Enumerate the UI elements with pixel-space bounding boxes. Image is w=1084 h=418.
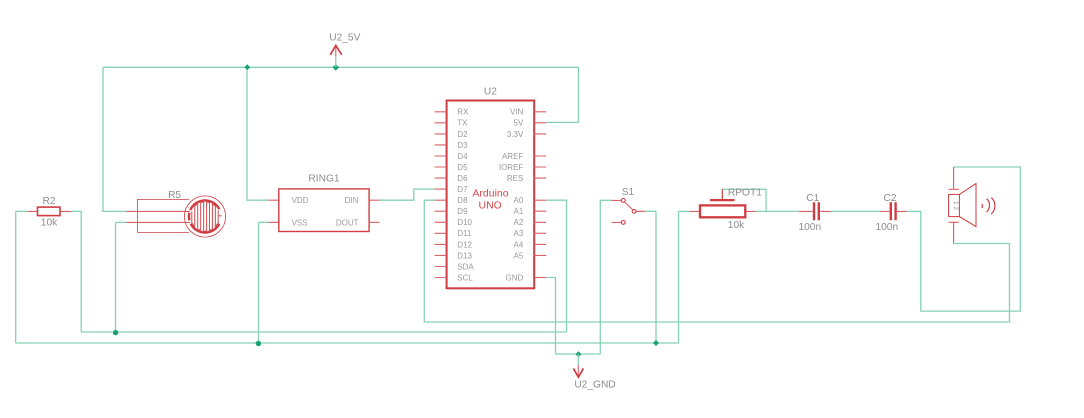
U2 left pin labels	[457, 108, 474, 283]
U2_5V stem wire	[335, 56, 337, 67]
node junction R5-divider	[113, 330, 118, 335]
svg-text:100n: 100n	[798, 222, 821, 233]
S1 pin stubs	[612, 200, 646, 222]
potentiometer RPOT1	[689, 188, 762, 232]
C2 plates	[891, 202, 896, 220]
wire C2 to speaker pin1	[907, 167, 1021, 311]
S1 lever	[625, 202, 633, 210]
svg-text:GND: GND	[506, 273, 524, 282]
wire R5 bottom lead down	[116, 222, 127, 332]
svg-text:D7: D7	[457, 185, 468, 194]
U2 body	[447, 101, 535, 289]
svg-text:D2: D2	[457, 130, 468, 139]
svg-text:U2_GND: U2_GND	[574, 380, 615, 391]
RPOT1 wiper	[710, 199, 735, 201]
svg-text:D3: D3	[457, 141, 468, 150]
wire divider rail y=332	[81, 331, 566, 333]
wire R2 right lead down	[71, 211, 81, 332]
ground symbol U2_GND	[573, 354, 615, 391]
C1 plates	[814, 202, 819, 220]
RPOT1 leads	[689, 210, 755, 212]
RING1 body	[279, 189, 369, 232]
wire C1 to C2	[831, 210, 881, 212]
svg-text:SCL: SCL	[457, 273, 473, 282]
speaker pins 1 and 2	[949, 167, 959, 244]
svg-text:R5: R5	[168, 190, 181, 201]
svg-text:RING1: RING1	[308, 174, 339, 185]
svg-text:AREF: AREF	[502, 152, 523, 161]
svg-text:D5: D5	[457, 163, 468, 172]
svg-text:D6: D6	[457, 174, 468, 183]
svg-text:RES: RES	[507, 174, 523, 183]
svg-text:10k: 10k	[728, 220, 745, 231]
svg-text:A1: A1	[514, 207, 524, 216]
R5 outer circle	[184, 196, 225, 237]
U2 right pin labels	[499, 108, 524, 283]
svg-text:D10: D10	[457, 218, 472, 227]
wire R2 left lead down	[16, 211, 28, 343]
svg-text:U2_5V: U2_5V	[329, 33, 360, 44]
svg-text:10k: 10k	[41, 218, 58, 229]
R2 body	[38, 207, 61, 216]
svg-text:5V: 5V	[514, 119, 524, 128]
wire left vertical from rail to R5 top lead	[103, 67, 127, 211]
svg-text:A5: A5	[514, 251, 524, 260]
R5 inner thick arcs	[190, 200, 219, 210]
wire RPOT1 right lead to C1	[755, 210, 798, 212]
IC RING1	[269, 174, 380, 232]
wire S1 top contact down to gnd bus	[600, 200, 611, 354]
wire rail down to RING1 VDD	[247, 67, 269, 200]
R5 body outline	[138, 199, 190, 232]
svg-text:R2: R2	[42, 196, 55, 207]
S1 contacts	[621, 199, 625, 203]
speaker body	[949, 194, 960, 216]
svg-text:D12: D12	[457, 240, 472, 249]
svg-text:VIN: VIN	[510, 108, 524, 117]
speaker LS1	[949, 167, 995, 244]
wire RING1 VSS down	[259, 222, 269, 343]
svg-text:S1: S1	[622, 187, 635, 198]
wire bottom rail y=343	[16, 342, 679, 344]
svg-text:VSS: VSS	[292, 218, 308, 227]
switch S1	[612, 187, 646, 224]
svg-text:DIN: DIN	[345, 196, 359, 205]
C2 leads	[880, 210, 906, 212]
svg-text:C2: C2	[883, 193, 896, 204]
svg-text:1 2: 1 2	[952, 201, 959, 210]
svg-text:Arduino: Arduino	[472, 187, 508, 199]
wire RING1 DIN to U2 D7	[380, 189, 435, 200]
svg-text:IOREF: IOREF	[499, 163, 524, 172]
wire 5V top rail	[103, 66, 578, 68]
svg-text:D4: D4	[457, 152, 468, 161]
svg-text:RX: RX	[457, 108, 469, 117]
svg-text:RPOT1: RPOT1	[728, 188, 762, 199]
node junction gnd symbol	[575, 351, 581, 357]
node junction VSS-bottom rail	[256, 341, 261, 346]
svg-text:C1: C1	[806, 193, 819, 204]
node junction rail-5V symbol	[333, 64, 340, 71]
svg-text:D9: D9	[457, 207, 468, 216]
IC U2 Arduino UNO	[447, 87, 535, 289]
svg-text:A0: A0	[514, 196, 524, 205]
svg-text:D11: D11	[457, 229, 472, 238]
R5 leads	[127, 211, 191, 222]
R2 leads	[28, 210, 72, 212]
U2_GND stem wire	[577, 354, 579, 365]
speaker sound waves	[981, 204, 984, 208]
wire U2 D8 to speaker pin2	[424, 200, 1009, 322]
wire S1 pole down	[645, 211, 656, 343]
wire U2 GND pin down	[546, 278, 555, 355]
wire A0 down to divider rail	[546, 200, 566, 332]
power symbol U2_5V	[329, 33, 360, 68]
svg-text:A2: A2	[514, 218, 524, 227]
capacitor C1	[798, 193, 830, 233]
U2_GND arrow	[577, 365, 579, 376]
svg-text:D8: D8	[457, 196, 468, 205]
wire gnd bus	[556, 353, 601, 355]
svg-text:U2: U2	[484, 87, 497, 98]
U2 right pin stubs	[534, 112, 546, 278]
U2 left pin stubs	[435, 112, 447, 278]
svg-text:TX: TX	[457, 119, 468, 128]
RPOT1 body	[700, 205, 745, 217]
svg-text:A3: A3	[514, 229, 524, 238]
node junction S1-bottom rail	[653, 340, 659, 346]
svg-text:3.3V: 3.3V	[507, 130, 524, 139]
U2_5V arrow	[335, 46, 337, 57]
svg-text:100n: 100n	[875, 222, 898, 233]
svg-text:VDD: VDD	[292, 196, 309, 205]
resistor R2	[28, 196, 72, 229]
svg-text:UNO: UNO	[479, 199, 502, 211]
node junction rail-VDD	[244, 64, 250, 70]
R5 serpentine element	[192, 202, 218, 231]
capacitor C2	[875, 193, 906, 233]
wire RPOT1 left lead down	[679, 211, 690, 343]
svg-text:SDA: SDA	[457, 262, 474, 271]
svg-text:DOUT: DOUT	[336, 218, 359, 227]
C1 leads	[799, 210, 831, 212]
wire RPOT1 wiper to right lead net	[722, 189, 766, 211]
RING1 pin stubs VDD VSS DIN DOUT	[269, 200, 380, 222]
svg-text:A4: A4	[514, 240, 524, 249]
photoresistor R5	[127, 190, 226, 237]
svg-text:D13: D13	[457, 251, 472, 260]
wire rail down to U2 5V pin	[546, 67, 578, 122]
